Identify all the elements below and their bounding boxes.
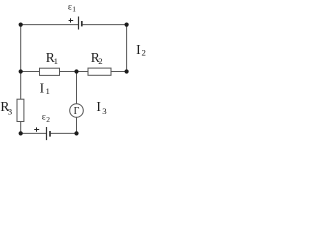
svg-text:2: 2: [46, 115, 50, 124]
svg-text:I: I: [136, 42, 141, 57]
svg-text:3: 3: [102, 106, 107, 116]
svg-text:Г: Г: [74, 106, 80, 117]
svg-text:ε: ε: [42, 113, 46, 123]
svg-text:2: 2: [142, 48, 146, 58]
svg-text:3: 3: [8, 106, 13, 116]
svg-text:I: I: [96, 99, 101, 114]
svg-text:1: 1: [46, 86, 50, 96]
svg-text:1: 1: [72, 5, 76, 14]
svg-text:ε: ε: [68, 3, 72, 13]
svg-text:I: I: [40, 80, 45, 95]
svg-text:1: 1: [54, 56, 58, 66]
svg-text:2: 2: [98, 56, 102, 66]
